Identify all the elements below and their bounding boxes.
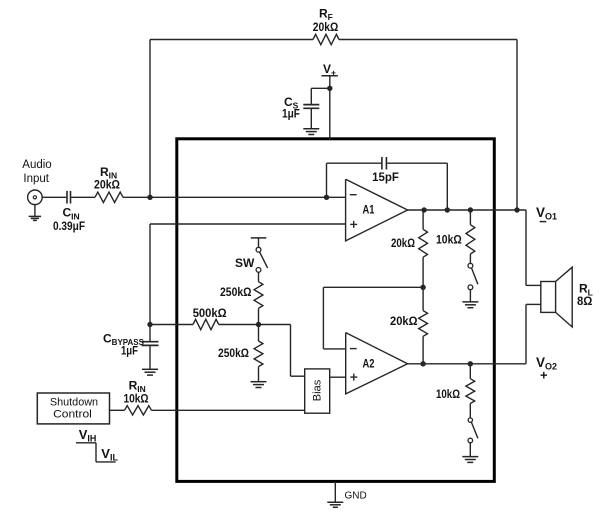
svg-text:8Ω: 8Ω xyxy=(577,294,593,308)
svg-text:20kΩ: 20kΩ xyxy=(313,20,339,34)
svg-text:15pF: 15pF xyxy=(372,170,399,184)
svg-text:0.39μF: 0.39μF xyxy=(53,219,85,233)
svg-text:1μF: 1μF xyxy=(282,107,300,121)
svg-text:10kΩ: 10kΩ xyxy=(123,392,148,406)
svg-text:Audio: Audio xyxy=(22,159,51,171)
svg-text:Bias: Bias xyxy=(312,379,324,401)
svg-text:+: + xyxy=(540,367,548,382)
svg-text:VIH: VIH xyxy=(79,427,97,444)
svg-text:250kΩ: 250kΩ xyxy=(218,346,249,360)
svg-text:250kΩ: 250kΩ xyxy=(220,285,252,299)
svg-text:1μF: 1μF xyxy=(121,344,138,358)
svg-text:Shutdown: Shutdown xyxy=(50,397,98,409)
svg-text:10kΩ: 10kΩ xyxy=(436,233,462,247)
svg-text:10kΩ: 10kΩ xyxy=(436,387,460,401)
svg-text:500kΩ: 500kΩ xyxy=(193,306,227,320)
svg-text:20kΩ: 20kΩ xyxy=(94,178,120,192)
svg-text:VIL: VIL xyxy=(101,446,118,463)
svg-text:V+: V+ xyxy=(323,62,336,78)
svg-text:VO1: VO1 xyxy=(536,205,557,222)
svg-text:A2: A2 xyxy=(363,359,375,371)
svg-text:Input: Input xyxy=(23,173,49,185)
svg-text:SW: SW xyxy=(235,256,255,270)
svg-text:Control: Control xyxy=(53,409,92,421)
svg-text:A1: A1 xyxy=(363,205,375,217)
svg-text:20kΩ: 20kΩ xyxy=(390,314,418,328)
svg-text:20kΩ: 20kΩ xyxy=(391,236,415,250)
svg-text:GND: GND xyxy=(345,491,367,502)
